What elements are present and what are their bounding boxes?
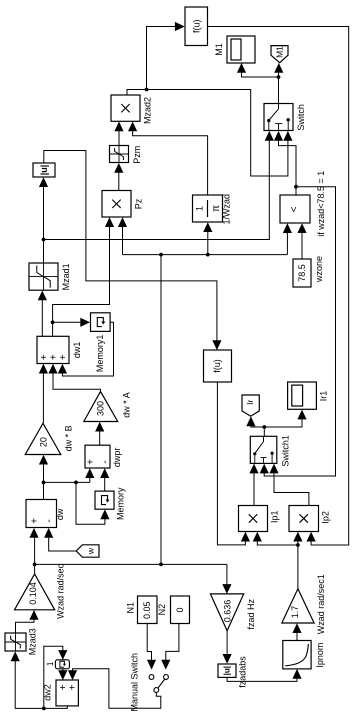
svg-text:Ip2: Ip2 xyxy=(320,511,330,524)
block Sum dw xyxy=(26,500,65,528)
block Lookup Ipnom xyxy=(283,641,325,669)
svg-text:+: + xyxy=(68,684,79,690)
svg-text:Switch1: Switch1 xyxy=(280,435,290,467)
block Product Ip2 xyxy=(289,506,330,532)
block Gain 1/Wzad xyxy=(193,194,232,225)
block Product Ip1 xyxy=(239,506,280,532)
svg-text:π: π xyxy=(211,205,222,212)
block Fcn f(u) xyxy=(185,7,208,46)
block Saturation Pzm xyxy=(110,146,142,164)
block Product Mzad2 xyxy=(111,95,153,124)
wire Manual Switch to dw2 xyxy=(68,669,161,709)
svg-text:Ir: Ir xyxy=(245,400,255,405)
svg-text:78.5: 78.5 xyxy=(297,264,307,282)
svg-text:M1: M1 xyxy=(214,43,224,56)
wire dw1 to Mzad1 xyxy=(38,291,47,337)
block Gain 20 xyxy=(25,423,73,454)
block Scope M1 xyxy=(214,36,255,63)
svg-text:if wzad<78.5 = 1: if wzad<78.5 = 1 xyxy=(316,171,326,237)
block Gain 300 xyxy=(84,391,132,421)
svg-text:Mzad1: Mzad1 xyxy=(61,263,71,290)
svg-text:-: - xyxy=(100,460,111,463)
block Constant N1 xyxy=(126,596,157,624)
wire Switch1 output xyxy=(246,410,306,437)
wire gain 0.636 to fzadabs xyxy=(223,631,232,664)
svg-text:dw2: dw2 xyxy=(42,684,52,701)
wire abs output to Fcn1 xyxy=(44,151,222,351)
svg-text:fzadabs: fzadabs xyxy=(237,656,247,688)
svg-text:Switch: Switch xyxy=(296,104,306,131)
svg-text:|u|: |u| xyxy=(223,666,232,675)
svg-text:|u|: |u| xyxy=(39,165,49,176)
svg-text:1/Wzad: 1/Wzad xyxy=(222,194,232,225)
block Sum dwpr xyxy=(85,445,122,468)
wire delay block to dw2 xyxy=(58,669,67,680)
wire branch Mzad2 to f(u) xyxy=(145,22,185,92)
wire dwpr to gain 300 xyxy=(95,422,104,446)
svg-text:dw * A: dw * A xyxy=(121,392,131,418)
block Switch1 xyxy=(250,435,290,467)
svg-text:Manual Switch: Manual Switch xyxy=(130,653,140,712)
svg-text:0: 0 xyxy=(175,607,185,612)
svg-text:N1: N1 xyxy=(126,602,136,614)
svg-text:dwpr: dwpr xyxy=(112,448,122,468)
svg-text:Pz: Pz xyxy=(134,198,144,209)
block Memory xyxy=(95,487,125,520)
svg-text:dw * B: dw * B xyxy=(64,425,74,451)
block Product Pz xyxy=(102,191,144,218)
wire dw2 output net xyxy=(11,646,68,710)
wire Fcn1 output to Ip1 xyxy=(217,382,250,545)
svg-text:0.104: 0.104 xyxy=(28,582,38,605)
svg-text:dw1: dw1 xyxy=(72,342,82,359)
block delay 1 xyxy=(46,660,70,669)
svg-text:f(u): f(u) xyxy=(212,359,222,373)
wire wzone to relational xyxy=(297,223,306,259)
svg-text:1.7: 1.7 xyxy=(290,606,300,619)
wire Mzad2 output net xyxy=(127,90,293,177)
wire N2 to Manual Switch xyxy=(161,624,179,670)
block Abs fzadabs xyxy=(218,656,247,688)
block Goto M1 xyxy=(271,46,288,63)
block Gain 0.636 xyxy=(210,594,256,631)
wire gain 1.7 output xyxy=(253,532,303,589)
svg-text:Ipnom: Ipnom xyxy=(315,643,325,668)
wire N1 to Manual Switch xyxy=(147,624,156,670)
wire Mzad1 output net xyxy=(39,131,274,263)
svg-text:Wzad rad/sec: Wzad rad/sec xyxy=(55,563,65,619)
svg-text:+: + xyxy=(58,354,69,360)
wire w tag to dw xyxy=(44,528,76,551)
block Scope Ir1 xyxy=(288,382,329,409)
svg-text:Mzad2: Mzad2 xyxy=(143,97,153,124)
block Switch xyxy=(264,104,306,131)
wire Switch output xyxy=(237,63,284,104)
block Gain 0.104 xyxy=(15,563,66,619)
wire Pzm to Mzad2 xyxy=(114,122,123,146)
svg-text:f(u): f(u) xyxy=(191,19,201,33)
svg-text:Ir1: Ir1 xyxy=(319,391,329,402)
svg-text:dw: dw xyxy=(55,508,65,520)
wire Mzad3 to gain xyxy=(16,610,39,633)
svg-text:N2: N2 xyxy=(157,604,167,616)
wire Pz to Pzm xyxy=(114,163,123,191)
wire Memory1 loop xyxy=(58,322,114,376)
svg-text:Pzm: Pzm xyxy=(132,146,142,164)
block Constant N2 xyxy=(157,596,189,624)
svg-text:0.636: 0.636 xyxy=(223,600,233,623)
svg-text:Mzad3: Mzad3 xyxy=(27,628,37,655)
wire Ip1 to Switch1 xyxy=(249,464,258,506)
wire Ip2 to Switch1 xyxy=(269,464,309,506)
wire 1/Wzad to Mzad2 xyxy=(128,122,208,196)
svg-text:M1: M1 xyxy=(274,46,284,58)
wire Memory to dwpr xyxy=(100,468,109,491)
svg-text:fzad Hz: fzad Hz xyxy=(246,598,256,629)
svg-text:wzone: wzone xyxy=(314,256,324,283)
block Goto Ir xyxy=(242,395,259,416)
svg-text:Memory1: Memory1 xyxy=(95,335,105,373)
block Memory1 xyxy=(91,313,111,372)
block Constant wzone xyxy=(293,256,324,287)
wire wzad net xyxy=(29,217,292,594)
svg-text:Wzad rad/sec1: Wzad rad/sec1 xyxy=(316,574,326,634)
svg-text:-: - xyxy=(44,519,55,522)
block Saturation Mzad1 xyxy=(29,263,71,290)
svg-text:0.05: 0.05 xyxy=(142,601,152,619)
svg-text:<: < xyxy=(289,206,300,212)
svg-text:Ip1: Ip1 xyxy=(269,510,279,523)
svg-text:1: 1 xyxy=(46,661,55,666)
block Fcn f(u) 2 xyxy=(204,350,232,382)
svg-text:Memory: Memory xyxy=(115,487,125,520)
wire fzadabs to Ipnom xyxy=(227,669,302,681)
svg-text:20: 20 xyxy=(39,437,49,447)
wire gain 300 to dw1 xyxy=(48,364,100,392)
block Manual Switch xyxy=(130,653,169,712)
block From tag w xyxy=(76,545,99,557)
svg-text:w: w xyxy=(86,547,96,555)
svg-text:300: 300 xyxy=(96,401,106,416)
wire dw output net xyxy=(39,455,110,525)
block Saturation Mzad3 xyxy=(5,628,37,655)
block Abs xyxy=(33,163,55,177)
block Relational Operator xyxy=(280,171,326,237)
block Sum dw1 xyxy=(37,336,82,363)
wire f(u) output to Ip2 xyxy=(208,27,349,546)
wire gain 20 to dw1 xyxy=(39,364,48,424)
wire Ipnom to gain 1.7 xyxy=(292,623,301,640)
svg-text:+: + xyxy=(29,518,40,524)
block Sum dw2 xyxy=(42,680,78,706)
svg-text:+: + xyxy=(86,459,97,465)
svg-text:1: 1 xyxy=(194,206,204,211)
wire relational output net xyxy=(260,131,336,476)
wire dw1 output net xyxy=(51,217,114,336)
block Gain 1.7 xyxy=(282,574,326,634)
